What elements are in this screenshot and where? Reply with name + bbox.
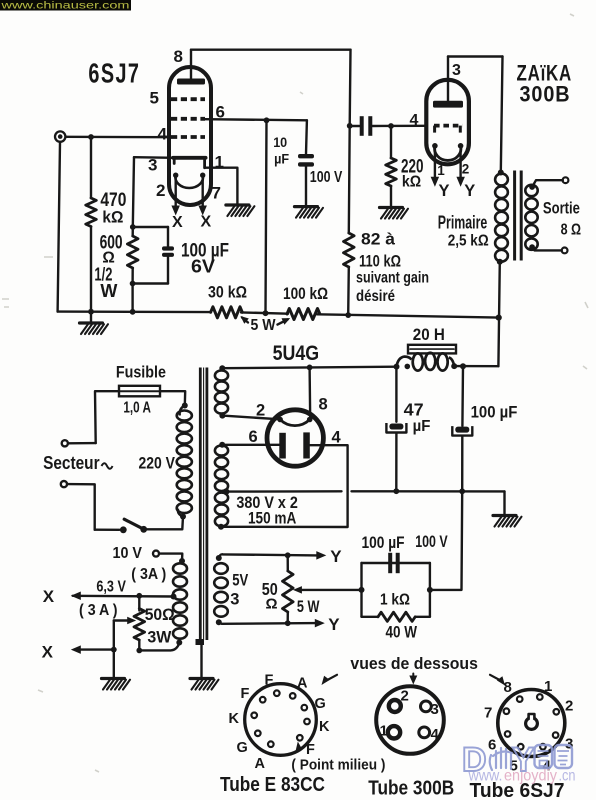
svg-text:40 W: 40 W (386, 624, 418, 642)
resistor 600ohm (127, 236, 138, 268)
wire 100uF bottom (461, 436, 463, 491)
svg-text:1,0 A: 1,0 A (123, 400, 150, 417)
watermark enjoydiy (468, 768, 576, 785)
wire screen pin6 (205, 119, 307, 120)
svg-text:300B: 300B (520, 82, 571, 107)
terminal secondary top (563, 177, 569, 183)
svg-text:6: 6 (249, 428, 258, 446)
pin 8 lead (190, 50, 192, 79)
node wiper gnd (111, 647, 117, 653)
wire secondary top (532, 180, 563, 187)
lead 220V bottom (178, 509, 183, 517)
capacitor coupling (362, 116, 371, 136)
node 600 top (130, 224, 136, 230)
svg-text:8: 8 (504, 679, 512, 696)
label 100k (283, 285, 328, 303)
wire 50ohm5W upper (287, 555, 289, 571)
wire B+ left (222, 367, 396, 369)
svg-text:kΩ: kΩ (102, 208, 123, 226)
terminal secondary bottom (562, 248, 568, 254)
watermark DIY logo (462, 741, 572, 779)
arrow to 300B (409, 674, 417, 685)
6SJ7 plate bar (177, 79, 205, 85)
ground pin1 (226, 205, 255, 216)
wire cathode net top (133, 226, 168, 228)
svg-text:suivant gain: suivant gain (356, 270, 429, 287)
pin 2 lead 300B (456, 146, 465, 187)
svg-text:www.: www. (468, 768, 503, 785)
wire Y top (223, 554, 318, 555)
ground core (190, 679, 219, 690)
svg-text:2: 2 (156, 181, 165, 200)
wire 100uF top (461, 366, 464, 426)
label pin 3 (148, 156, 157, 175)
wire pin6 5U4G (222, 444, 279, 446)
wire cap 10uF bottom (305, 167, 307, 206)
wire 47uF top (395, 367, 397, 422)
node primary top (498, 170, 504, 176)
winding 6.3V (173, 563, 187, 638)
svg-text:2,5 kΩ: 2,5 kΩ (448, 233, 489, 250)
svg-text:A: A (297, 676, 308, 692)
label X1 (43, 587, 55, 606)
label Fusible (116, 363, 166, 382)
node HV center tap (223, 488, 229, 494)
wire 600 lower (131, 268, 133, 284)
combo right vertical (429, 563, 431, 617)
svg-text:8: 8 (174, 47, 183, 66)
svg-text:1: 1 (380, 723, 388, 740)
arrow Y top (316, 551, 326, 560)
node HV bottom (218, 524, 224, 530)
label 100uF filter (471, 404, 518, 422)
svg-text:150 mA: 150 mA (248, 510, 296, 528)
arrow X1 (71, 592, 81, 601)
wire cap 100uF6V top (167, 227, 169, 246)
wire fuse to primary (160, 391, 185, 405)
label 100uF 6V (181, 241, 229, 277)
wire secteur bottom (67, 484, 94, 530)
node 5Vr bottom (219, 413, 225, 419)
wire coupling to 300B grid (373, 125, 425, 128)
wire switch to primary (147, 517, 183, 530)
wire X2 (79, 648, 114, 650)
svg-text:Tube E 83CC: Tube E 83CC (220, 774, 325, 796)
label 110k (359, 253, 401, 271)
5U4G anode left (279, 433, 286, 459)
svg-text:50Ω: 50Ω (145, 606, 175, 624)
300B socket pin1 (388, 726, 400, 738)
label 380Vx2 (236, 494, 298, 512)
node 100uF top (460, 363, 466, 369)
svg-text:( 3A ): ( 3A ) (131, 566, 166, 583)
rheo wiper (114, 617, 136, 624)
node 220V top (182, 403, 188, 409)
svg-text:Tube 300B: Tube 300B (368, 777, 454, 799)
300B socket labels (380, 688, 440, 744)
ground bus center tap (226, 490, 504, 493)
6SJ7 cathode bar (173, 158, 206, 168)
label ZAIKA (517, 61, 573, 86)
svg-text:1 kΩ: 1 kΩ (380, 591, 410, 608)
socket 6SJ7 (498, 690, 565, 757)
label 5U4G (273, 342, 320, 365)
node 220k top (388, 123, 394, 129)
switch S1 (120, 519, 147, 533)
winding 5V 300B (214, 563, 228, 617)
E83CC point milieu arrow (296, 742, 303, 751)
choke winding (397, 353, 455, 371)
svg-text:X: X (42, 643, 54, 662)
label Point milieu (291, 758, 385, 774)
svg-text:3W: 3W (147, 628, 171, 646)
wire pin1 to ground (205, 168, 238, 204)
lead 5V top (219, 554, 223, 558)
node bus 82-110k (345, 312, 351, 318)
combo left vertical (360, 563, 362, 617)
label 220V (139, 454, 176, 472)
svg-text:4: 4 (410, 112, 419, 129)
label 47uF (404, 400, 431, 436)
svg-text:2: 2 (565, 698, 573, 715)
node bus 600ohm (130, 309, 136, 315)
output transformer secondary (525, 185, 537, 250)
pin 3 lead (447, 57, 449, 101)
output transformer primary (495, 174, 508, 262)
svg-text:Y: Y (328, 615, 340, 634)
svg-text:110 kΩ: 110 kΩ (359, 253, 401, 271)
svg-text:F: F (241, 686, 250, 702)
svg-text:µF: µF (413, 418, 431, 435)
label pin6 5U4G (249, 428, 258, 446)
power transformer core (200, 368, 207, 641)
svg-text:4: 4 (158, 125, 168, 144)
combo bottom left (362, 616, 379, 618)
resistor 100k (287, 309, 320, 320)
node combo right (427, 587, 433, 593)
rheostat 50ohm 3W (134, 609, 145, 641)
6SJ7 grid dash row 5 (171, 97, 205, 101)
5U4G filament arc (277, 417, 312, 426)
node 50ohm5W top (285, 552, 291, 558)
core end block (196, 639, 205, 645)
svg-text:47: 47 (404, 400, 424, 420)
ground bus left (58, 310, 211, 313)
label Sortie (543, 200, 580, 218)
wire to coupling cap (350, 125, 360, 127)
wire cathode pin3 (134, 156, 174, 159)
node HV top (219, 442, 225, 448)
output transformer core (515, 171, 522, 261)
label 100V (310, 169, 343, 186)
combo bottom right (415, 616, 430, 618)
capacitor 100uF 6V (162, 246, 174, 257)
label pin 5 (150, 89, 159, 108)
tube 6SJ7 envelope (169, 67, 211, 205)
label Secteur (43, 453, 100, 473)
300B plate bar (433, 101, 463, 108)
svg-text:6,3 V: 6,3 V (96, 578, 126, 595)
label Tube 6SJ7 (470, 780, 565, 800)
node bus B+ (496, 315, 502, 321)
capacitor 10uF (298, 154, 314, 167)
label 3A bottom (79, 602, 118, 619)
wire 6.3V tap (73, 595, 174, 598)
label pin 7 (212, 184, 221, 203)
wiper 50ohm5W (293, 586, 362, 594)
wire secondary bottom (532, 247, 562, 250)
wire pin3 down (133, 157, 134, 227)
svg-text:100 µF: 100 µF (362, 534, 405, 552)
wire 300B plate run (448, 55, 503, 57)
label Y top (330, 547, 342, 566)
label Tube E83CC (220, 774, 325, 796)
capacitor 100uF filter (452, 426, 472, 436)
label 82 a (361, 231, 396, 249)
label 1k (380, 591, 410, 608)
wire rheo bottom (136, 640, 179, 653)
wire mains top left (95, 391, 119, 443)
wire choke to B+ node (454, 365, 498, 368)
label pin 1 (215, 153, 224, 172)
wire cathode net bottom (133, 282, 168, 284)
AC squiggle (102, 463, 113, 469)
choke core (408, 345, 456, 354)
node secondary top (529, 184, 535, 190)
label 300B (520, 82, 571, 107)
node 6.3V bottom (176, 640, 182, 646)
svg-text:5: 5 (150, 89, 159, 108)
label X2 (42, 643, 54, 662)
svg-text:100 kΩ: 100 kΩ (283, 285, 328, 303)
label 5V (230, 571, 248, 608)
label vues de dessous (350, 654, 478, 673)
wire down to coupling node (349, 50, 352, 126)
svg-text:G: G (237, 740, 248, 756)
svg-text:8: 8 (319, 396, 328, 414)
label pin 6 (216, 103, 225, 122)
svg-text:100 V: 100 V (415, 533, 448, 551)
svg-text:Sortie: Sortie (543, 200, 580, 218)
wire wiper to ground (113, 650, 115, 678)
svg-text:2: 2 (401, 688, 409, 705)
wire wiper down (113, 621, 115, 650)
arrow to E83CC (322, 675, 338, 685)
wire 600 to bus (131, 284, 133, 312)
svg-text:3: 3 (431, 701, 439, 718)
resistor 220k (386, 158, 397, 186)
arrow X2 (71, 645, 81, 654)
resistor 1k 40W (378, 612, 415, 621)
wire 220k top (390, 126, 392, 158)
svg-text:6SJ7: 6SJ7 (88, 57, 140, 88)
terminal secteur top (62, 440, 68, 446)
label pin2 300B (462, 162, 470, 177)
svg-text:www.chinauser.com: www.chinauser.com (0, 1, 129, 12)
node secondary bottom (529, 244, 535, 250)
svg-text:6V: 6V (191, 256, 216, 277)
300B filament loop (432, 143, 463, 160)
svg-text:F: F (306, 742, 315, 758)
label 220k (401, 157, 424, 191)
svg-text:X: X (201, 214, 212, 231)
wire bus to ground (503, 491, 505, 514)
node 100uF bottom (459, 488, 465, 494)
label X heater right (201, 214, 212, 231)
svg-text:10 V: 10 V (113, 545, 143, 562)
label 3A top (131, 566, 166, 583)
label pin1 300B (437, 163, 445, 178)
node combo left (359, 587, 365, 593)
label 470k (100, 190, 126, 226)
node bus 470k (88, 309, 94, 315)
wire core to ground (200, 645, 202, 678)
svg-text:5 W: 5 W (297, 598, 320, 616)
wire 82-110k to bus (347, 267, 350, 315)
pin 2 heater lead (171, 175, 180, 215)
node 5Vr top (219, 365, 225, 371)
wire Y bottom (222, 622, 317, 625)
label 6SJ7 (88, 57, 140, 88)
svg-text:3: 3 (452, 62, 461, 79)
label Y pin1 (439, 182, 450, 200)
node 50ohm5W bottom (285, 620, 291, 626)
label pin2 5U4G (256, 402, 265, 420)
svg-text:30 kΩ: 30 kΩ (208, 284, 247, 302)
resistor 50ohm 5W (283, 571, 294, 612)
svg-text:20 H: 20 H (413, 326, 445, 344)
node 5V300B top (216, 555, 222, 561)
label 150mA (248, 510, 296, 528)
svg-text:2: 2 (256, 402, 265, 420)
wire secteur top (68, 442, 96, 445)
capacitor 47uF (386, 423, 406, 433)
pin 7 heater lead (198, 175, 207, 215)
node 220V bottom (180, 514, 186, 520)
label Tube 300B (368, 777, 454, 799)
label 6.3V (96, 578, 126, 595)
wire to switch (95, 529, 120, 531)
svg-text:enjoydiy: enjoydiy (504, 768, 557, 785)
winding HV 380Vx2 (215, 445, 228, 526)
300B socket pin4 (419, 727, 430, 738)
label suivant gain (356, 270, 429, 287)
wire combo to bus (430, 491, 462, 590)
tube 5U4G envelope (267, 410, 323, 466)
svg-text:2: 2 (462, 162, 470, 177)
label Primaire (438, 213, 488, 233)
label pin4 5U4G (332, 429, 342, 447)
svg-text:X: X (43, 587, 55, 606)
wire bus 30k-100k (241, 312, 288, 313)
wire pin2 5U4G (222, 416, 280, 420)
winding 5V rectifier (215, 370, 228, 413)
node primary bottom (497, 259, 503, 265)
label desire (356, 288, 395, 305)
arrow Y bottom (315, 619, 325, 628)
ground 220k (380, 208, 409, 219)
label 100uF cathode (362, 533, 448, 552)
combo top wire (362, 562, 430, 564)
node rheo top (136, 593, 142, 599)
wire 47uF bottom (395, 433, 398, 491)
label 40W (386, 624, 418, 642)
wire 600 upper (131, 227, 134, 236)
ground 10uF (295, 207, 324, 218)
svg-text:Y: Y (464, 182, 475, 200)
node 5V300B bottom (216, 619, 222, 625)
wire rheo top (138, 596, 140, 611)
winding 220V primary (177, 411, 192, 514)
watermark www.chinauser.com (0, 0, 131, 12)
label 600 (94, 233, 122, 301)
node grid junction (88, 134, 94, 140)
tube 300B envelope (426, 80, 469, 165)
svg-text:.cn: .cn (559, 768, 576, 785)
node 600 bottom (130, 281, 136, 287)
capacitor 100uF cathode (390, 553, 398, 573)
6SJ7 grid dash row 6 (171, 117, 205, 121)
svg-text:Secteur: Secteur (43, 453, 100, 473)
ground wiper (102, 679, 131, 690)
svg-text:Y: Y (330, 547, 342, 566)
node B+ pin8 (307, 365, 313, 371)
5U4G anode right (303, 432, 310, 458)
svg-text:( Point milieu ): ( Point milieu ) (291, 758, 385, 774)
svg-text:100 µF: 100 µF (471, 404, 518, 422)
node 6.3V top (179, 558, 185, 564)
label 10V (113, 545, 143, 562)
label pin 2 (156, 181, 165, 200)
node choke right (451, 363, 457, 369)
svg-text:5 W: 5 W (251, 317, 277, 334)
arrow to 6SJ7 (490, 675, 505, 686)
label 20H (413, 326, 445, 344)
wire down to primary (501, 57, 503, 173)
terminal 10V (153, 551, 159, 557)
wire 50ohm5W lower (287, 612, 289, 623)
wire jack down to ground bus (58, 142, 60, 311)
input jack J1 (55, 131, 65, 141)
wire primary bottom down (498, 262, 499, 366)
wire screen vertical (266, 120, 267, 313)
label 8 ohm (561, 222, 582, 239)
lead 220V top (180, 406, 185, 416)
svg-text:100 V: 100 V (310, 169, 343, 186)
svg-text:10: 10 (273, 135, 287, 150)
label 50ohm 3W (145, 606, 175, 647)
6SJ7 grid dash row 4 (171, 135, 205, 139)
node 47uF top (394, 364, 400, 370)
svg-text:désiré: désiré (356, 288, 395, 305)
wire cap 100uF6V bottom (167, 257, 169, 284)
svg-text:G: G (315, 696, 326, 712)
node bus screen (263, 310, 269, 316)
fuse (119, 386, 160, 397)
svg-text:Ω: Ω (266, 595, 278, 612)
wire 470k bottom (90, 227, 92, 312)
300B socket pin2 (389, 700, 401, 712)
wire jack to 6SJ7 grid (66, 136, 170, 139)
node coupling (347, 123, 353, 129)
label 2.5k (448, 233, 489, 250)
svg-text:1: 1 (437, 163, 445, 178)
svg-text:82 à: 82 à (361, 231, 396, 249)
svg-text:X: X (172, 214, 183, 231)
svg-text:kΩ: kΩ (402, 174, 421, 191)
node 47uF bottom (393, 488, 399, 494)
svg-text:A: A (255, 756, 266, 772)
